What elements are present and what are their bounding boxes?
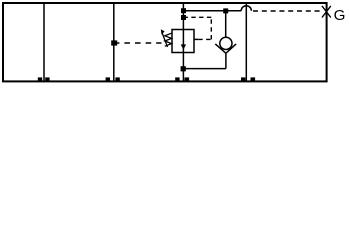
dashed drain line top segment xyxy=(185,16,212,18)
wire vertical line x=246 xyxy=(245,3,247,81)
relief valve U1 body xyxy=(172,30,194,53)
spring (adjustable) of relief valve xyxy=(165,33,172,46)
wire main supply drop x=183.4 xyxy=(182,3,184,30)
check valve top line xyxy=(225,11,227,38)
pilot stub from valve right side xyxy=(194,38,198,40)
node junction dot at (225.6,10.8) xyxy=(223,8,228,13)
wire vertical line x=114 xyxy=(113,3,115,81)
plugged port X xyxy=(322,6,331,18)
node junction dot at (183.4,17.3) xyxy=(181,15,186,20)
svg-text:G: G xyxy=(334,7,346,24)
port pad pair at x=114 xyxy=(106,77,110,81)
node junction dot at (183.2,68.6) xyxy=(181,66,186,71)
check valve ball xyxy=(220,37,232,49)
port pad pair at x=246 xyxy=(241,77,245,81)
relief valve bottom drop line xyxy=(182,53,184,82)
node junction dot at (183.4,10.5) xyxy=(181,8,186,13)
frame border xyxy=(3,3,327,81)
check valve bottom line xyxy=(225,53,227,68)
port pad pair at x=183 xyxy=(175,77,179,81)
port pad pair at x=44 xyxy=(38,77,42,81)
dashed drain line right segment xyxy=(198,38,211,40)
dashed drain line vertical segment xyxy=(210,17,212,39)
wire horizontal gauge line y=10.8 xyxy=(183,10,241,12)
node junction dot at (114,43) xyxy=(111,40,117,45)
relief valve flow arrow xyxy=(182,30,184,53)
check valve seat xyxy=(215,44,236,53)
wire dashed gauge line to port G xyxy=(253,10,322,12)
wire horizontal line y=68.6 xyxy=(183,68,226,70)
wire vertical line x=44 xyxy=(43,3,45,81)
wire crossover hop over x=246 xyxy=(241,6,251,11)
wire dashed pilot line y=43 xyxy=(114,42,162,44)
adjustment arrow across spring xyxy=(162,33,168,48)
